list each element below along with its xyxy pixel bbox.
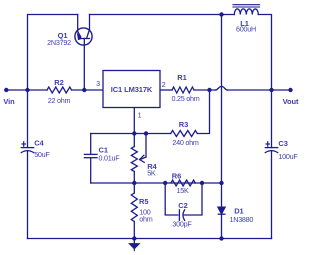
svg-text:1: 1 (138, 111, 142, 120)
svg-text:IC1 LM317K: IC1 LM317K (111, 85, 153, 94)
wire R6 parallel right branch (184, 183, 202, 215)
wire hop over vertical branch (216, 86, 228, 90)
resistor R2 (47, 87, 72, 93)
svg-text:0.25 ohm: 0.25 ohm (172, 94, 200, 103)
capacitor C1 (84, 154, 97, 157)
capacitor C2 (179, 210, 184, 221)
svg-text:600uH: 600uH (236, 25, 256, 34)
junction top rail / L1 branch (219, 12, 223, 16)
wire R6 parallel left branch (165, 183, 178, 215)
wire R5 top lead (133, 183, 135, 193)
wire R2 left lead (28, 89, 48, 91)
wire bottom-mid horizontal (C1 bottom to D1 node) (91, 182, 222, 184)
capacitor C3 (265, 142, 277, 153)
resistor R6 (171, 180, 195, 186)
wire IC pin 2 to R1 (160, 89, 172, 91)
svg-text:C2: C2 (178, 201, 187, 210)
terminal Vin (4, 88, 8, 92)
transistor Q1 (75, 15, 92, 91)
resistor R5 (131, 193, 137, 222)
wire L1 branch vertical (top rail to D1 node, crosses R1 wire) (221, 15, 223, 184)
wire D1 bottom lead (221, 214, 223, 238)
diode D1 (218, 207, 225, 214)
wire C1 bottom lead (90, 158, 92, 183)
svg-text:0.01uF: 0.01uF (99, 154, 121, 163)
svg-text:R6: R6 (172, 172, 181, 181)
wire R5 bottom lead (133, 222, 135, 239)
svg-text:50uF: 50uF (34, 150, 50, 159)
junction Vout node (269, 88, 273, 92)
junction R1 out / R3 (207, 88, 211, 92)
wire inductor to corner (258, 15, 271, 91)
svg-text:R1: R1 (177, 73, 186, 82)
svg-text:R3: R3 (179, 120, 188, 129)
junction Vin node (25, 88, 29, 92)
wire R4 bottom lead (133, 172, 135, 184)
junction D1 / bottom rail (219, 236, 223, 240)
svg-text:Vin: Vin (3, 97, 15, 106)
wire right vertical lower (C3 to bottom rail) (271, 151, 273, 239)
junction R6 right node (200, 181, 204, 185)
wire adjust node horizontal (C1 to R3) (91, 133, 171, 135)
junction adjust node / R4 (132, 131, 136, 135)
wire R1 to output node with hop (194, 89, 216, 91)
resistor R3 (171, 131, 198, 137)
wire top rail right (90, 14, 235, 16)
capacitor C4 (21, 142, 33, 153)
svg-text:R5: R5 (139, 197, 148, 206)
wire IC pin 1 down to adjust node (133, 108, 135, 134)
svg-text:22 ohm: 22 ohm (48, 96, 71, 105)
junction R6 left node (163, 181, 167, 185)
inductor L1 (233, 5, 260, 15)
IC1 LM317K regulator box (103, 71, 160, 108)
svg-text:1N3880: 1N3880 (230, 215, 254, 224)
wire right vertical upper (Vout node down to C3) (271, 90, 273, 148)
junction D1 node (219, 181, 223, 185)
svg-text:2: 2 (162, 80, 166, 89)
junction ground node (132, 236, 136, 240)
terminal Vout (288, 88, 292, 92)
junction arrow tap (144, 131, 148, 135)
wire bottom rail (28, 238, 272, 240)
junction R4 bottom / R5 (132, 181, 136, 185)
svg-text:Vout: Vout (283, 97, 299, 106)
svg-text:300pF: 300pF (172, 220, 192, 229)
svg-text:R2: R2 (54, 78, 63, 87)
svg-text:C4: C4 (34, 139, 44, 148)
svg-text:ohm: ohm (139, 215, 152, 224)
R4 adjustment arrow (140, 134, 146, 163)
wire D1 top lead (221, 183, 223, 207)
wire R4 top lead (133, 134, 135, 147)
svg-text:5K: 5K (147, 168, 156, 177)
wire left vertical lower (C4 to bottom rail) (27, 151, 29, 239)
wire C1 top lead (90, 134, 92, 155)
svg-text:15K: 15K (176, 186, 188, 195)
wire Vout node to terminal (272, 89, 291, 91)
svg-text:100uF: 100uF (278, 152, 298, 161)
resistor R4 (131, 147, 137, 172)
resistor R1 (172, 87, 194, 93)
wire left vertical upper (Vin node down to C4) (27, 90, 29, 148)
wire Vin terminal to left rail (6, 89, 27, 91)
svg-text:240 ohm: 240 ohm (172, 138, 198, 147)
svg-text:2N3792: 2N3792 (47, 38, 71, 47)
ground symbol (130, 239, 139, 251)
svg-text:C3: C3 (278, 139, 287, 148)
wire top rail left (28, 15, 78, 91)
wire R3 right lead and up to R1 output node (197, 90, 209, 134)
svg-text:3: 3 (96, 79, 100, 88)
wire R2 right lead to IC pin 3 (72, 89, 104, 91)
junction Q1 base / R2 (82, 88, 86, 92)
